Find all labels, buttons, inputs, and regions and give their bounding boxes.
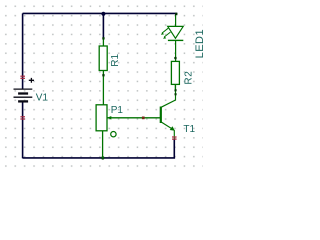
emitter arrowhead [170, 126, 175, 131]
junction node bottom green [101, 156, 104, 159]
wire R1 branch [102, 14, 104, 39]
pin square LED bottom / R2 top [174, 57, 176, 59]
triangle [168, 26, 184, 38]
light arrow 2 [164, 32, 170, 37]
pin tick emitter [172, 136, 177, 139]
LED1 [162, 15, 183, 62]
P1 open terminal circle [111, 132, 116, 137]
arrowhead 2 [163, 36, 166, 38]
svg-text:P1: P1 [111, 105, 124, 116]
wire top horizontal [23, 12, 178, 14]
cathode lead [175, 40, 177, 61]
svg-text:R2: R2 [184, 71, 195, 85]
emitter diagonal [161, 122, 173, 129]
arrowhead 1 [161, 32, 164, 34]
pin square R1 top [102, 37, 104, 39]
wire bottom horizontal [23, 139, 175, 158]
pin tick V1 bottom [20, 116, 25, 119]
transistor T1 [161, 84, 176, 138]
pin square collector [175, 93, 177, 95]
base node square [142, 117, 145, 120]
wire left vertical upper [22, 13, 24, 89]
wiper arrowhead [107, 116, 111, 120]
cathode bar [168, 39, 183, 41]
anode lead [175, 15, 177, 27]
pin square R2 bottom [175, 89, 177, 91]
junction node top [101, 12, 105, 16]
emitter lead down [173, 130, 175, 139]
collector diagonal [161, 84, 176, 107]
svg-text:R1: R1 [110, 53, 121, 66]
resistor R2 [171, 61, 179, 89]
wire left vertical lower [22, 102, 24, 159]
pin tick V1 top [20, 76, 25, 79]
battery V1 [14, 89, 33, 101]
svg-text:LED1: LED1 [194, 29, 206, 59]
pin square R1 bottom [102, 74, 104, 76]
svg-text:V1: V1 [36, 93, 49, 104]
base bar [160, 107, 162, 124]
potentiometer P1 [96, 105, 160, 158]
pin square LED top [175, 13, 177, 15]
light arrow 1 [162, 28, 168, 33]
plus sign [29, 78, 34, 83]
resistor R1 [99, 39, 107, 105]
svg-text:T1: T1 [183, 124, 195, 135]
